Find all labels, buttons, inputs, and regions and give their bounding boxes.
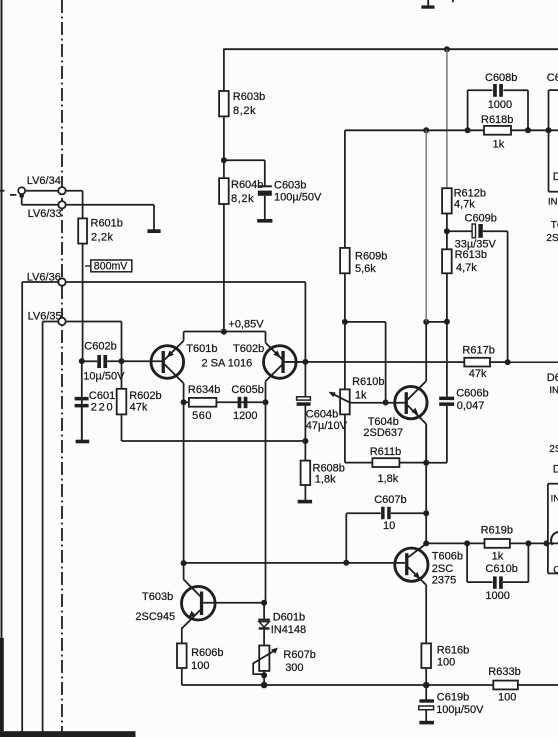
wire T603b collector line to T606b base: [184, 562, 405, 564]
junction C607b drop on base line: [343, 560, 349, 566]
svg-text:100µ/50V: 100µ/50V: [436, 704, 484, 716]
wire C606b bottom to emitter node: [426, 406, 447, 463]
svg-text:R606b: R606b: [191, 647, 223, 659]
svg-text:R603b: R603b: [233, 91, 265, 103]
wire T602b corner vertical down to T603b base: [265, 402, 267, 602]
junction emitter/R611b/C606b node: [423, 460, 429, 466]
wiper of R607b: [253, 648, 278, 675]
connector LV6/36: [27, 271, 66, 285]
svg-text:1k: 1k: [493, 138, 505, 150]
transistor T604b (2SD637 NPN): [363, 322, 427, 463]
svg-text:LV6/36: LV6/36: [27, 271, 61, 283]
svg-text:IN.: IN.: [548, 196, 558, 207]
capacitor C605b: [231, 384, 263, 422]
wire C607b left lead and drop: [346, 513, 380, 563]
wire dash-dot module boundary vertical: [61, 0, 63, 732]
ground below C603b: [257, 219, 272, 223]
wire D601b stem upper: [263, 603, 265, 620]
svg-text:T603b: T603b: [142, 591, 173, 603]
svg-text:R613b: R613b: [455, 249, 487, 261]
capacitor C601b (electrolytic): [75, 390, 122, 440]
resistor R601b: [78, 217, 123, 243]
svg-text:C: C: [553, 565, 558, 576]
wire LV6/36 left branch vertical down to bottom bar: [21, 282, 23, 732]
resistor R612b: [442, 188, 486, 214]
svg-text:R617b: R617b: [462, 345, 494, 357]
junction R616b on rail: [423, 682, 430, 689]
junction C610b right: [525, 540, 531, 546]
svg-text:4,7k: 4,7k: [454, 199, 475, 211]
capacitor C608b: [485, 72, 517, 111]
wire LV6/34 left dashes: [0, 191, 16, 195]
wire R616b to rail: [425, 668, 427, 700]
wire R601b vertical branch: [82, 191, 84, 361]
resistor R611b: [370, 446, 402, 485]
resistor R617b: [462, 345, 494, 381]
resistor R613b: [442, 249, 487, 274]
resistor R618b: [481, 114, 513, 150]
label fragment 2S/D right edge: [549, 444, 558, 476]
wire LV6/36 horizontal: [22, 281, 305, 283]
junction C609b tap: [444, 228, 450, 234]
svg-text:R619b: R619b: [481, 524, 513, 536]
wire C606b branch vertical: [446, 322, 448, 397]
svg-text:10µ/50V: 10µ/50V: [83, 371, 125, 383]
junction T606b collector node: [423, 540, 429, 546]
wire collector jumper y=322: [426, 321, 447, 323]
svg-text:220: 220: [91, 401, 115, 413]
svg-text:C602b: C602b: [84, 341, 116, 353]
capacitor C606b: [439, 387, 488, 411]
svg-text:1k: 1k: [355, 389, 367, 401]
svg-text:R618b: R618b: [481, 114, 513, 126]
svg-text:800mV: 800mV: [94, 261, 128, 273]
wire jumper to T604b base branch: [345, 322, 386, 403]
svg-text:1,8k: 1,8k: [315, 474, 336, 486]
resistor R607b (variable): [259, 646, 316, 675]
wire ground stem after LV6/33: [153, 205, 155, 230]
resistor R610b (variable): [329, 376, 385, 414]
wire T601b corner vertical down to T603b: [183, 402, 185, 563]
resistor R634b: [188, 384, 220, 422]
wire T604b collector branch upper (faint): [425, 130, 427, 322]
wire top edge tick: [452, 0, 454, 2]
svg-text:2 SA 1016: 2 SA 1016: [202, 358, 253, 370]
svg-text:2SC945: 2SC945: [135, 611, 175, 623]
svg-text:2375: 2375: [432, 574, 456, 586]
junction left connector: [19, 193, 24, 198]
svg-text:1k: 1k: [492, 551, 504, 563]
wire C602b left node vertical (from R601b) to C601b/ground: [81, 361, 83, 440]
wire LV6/35 horizontal: [43, 321, 122, 323]
wire bias rail y=441: [122, 440, 306, 442]
resistor R619b: [481, 524, 513, 562]
junction T604b base node: [383, 400, 389, 406]
svg-text:+0,85V: +0,85V: [228, 318, 264, 330]
wire bottom rail: [182, 684, 558, 686]
junction R618b right: [525, 127, 531, 133]
junction R609b bottom node: [342, 319, 348, 325]
junction C607b right: [423, 510, 429, 516]
svg-text:D6: D6: [547, 372, 558, 384]
svg-text:2SC: 2SC: [432, 563, 453, 575]
junction R619b out right edge: [544, 540, 550, 546]
wire left page edge vertical line: [0, 0, 4, 732]
svg-text:R616b: R616b: [437, 644, 469, 656]
wire C602b left lead: [82, 360, 97, 362]
wire R603b branch vertical x=224: [223, 49, 225, 332]
wire C609b right drop to signal node: [507, 231, 509, 362]
svg-text:2S: 2S: [546, 233, 558, 244]
capacitor C610b: [485, 563, 517, 602]
wire C602b right lead to T601b base: [107, 360, 162, 362]
resistor R616b: [421, 643, 469, 668]
wire +0.85V emitter rail: [184, 331, 266, 333]
component box fragment top right: [546, 72, 558, 244]
wire LV6/33 horizontal: [22, 204, 154, 206]
label +0,85V: [228, 318, 264, 330]
svg-text:LV6/34: LV6/34: [27, 175, 61, 187]
junction T603b collector node: [181, 560, 187, 566]
svg-text:47k: 47k: [130, 401, 148, 413]
svg-text:300: 300: [285, 662, 303, 674]
capacitor C603b (electrolytic): [258, 180, 322, 220]
svg-text:C610b: C610b: [485, 563, 517, 575]
wire R609b vertical: [344, 130, 346, 462]
svg-text:10: 10: [383, 520, 395, 532]
svg-text:C607b: C607b: [374, 494, 406, 506]
resistor R606b: [177, 643, 224, 671]
capacitor C607b: [374, 494, 406, 532]
svg-text:C603b: C603b: [274, 180, 306, 192]
wire T603b base lead: [203, 602, 264, 604]
wire R613b lower vertical: [446, 273, 448, 321]
svg-text:R604b: R604b: [231, 179, 263, 191]
svg-text:LV6/35: LV6/35: [28, 310, 62, 322]
junction T602b lower corner: [263, 399, 269, 405]
diode D601b (1N4148): [258, 611, 306, 636]
svg-text:100: 100: [191, 660, 209, 672]
junction feedback line / collector branch: [423, 127, 429, 133]
transistor T602b (2SA1016 PNP): [202, 332, 297, 403]
svg-text:R602b: R602b: [129, 390, 161, 402]
junction C602b left: [79, 358, 85, 364]
svg-text:IN: IN: [549, 385, 558, 396]
transistor T606b (2SC2375 NPN): [395, 544, 463, 644]
junction collector jumper right: [444, 319, 450, 325]
wire R619b row: [426, 542, 558, 544]
junction right-edge box tap: [546, 127, 552, 133]
svg-text:1000: 1000: [485, 590, 509, 602]
svg-text:47k: 47k: [469, 368, 487, 380]
svg-text:2,2k: 2,2k: [91, 232, 113, 244]
resistor R633b: [488, 666, 520, 704]
wire D601b to R607b: [263, 630, 265, 646]
wire R607b to rail: [263, 671, 265, 685]
capacitor C604b (electrolytic): [297, 397, 348, 432]
junction R607b bottom: [261, 672, 267, 678]
junction C610b left: [464, 540, 470, 546]
wire LV6/34 horizontal: [25, 190, 83, 192]
resistor R602b: [117, 389, 162, 415]
capacitor C609b (electrolytic): [447, 213, 508, 251]
connector LV6/33: [28, 201, 66, 220]
wire top supply rail y=49: [224, 48, 558, 50]
junction R617b output node: [505, 359, 511, 365]
svg-text:C619b: C619b: [437, 691, 469, 703]
svg-text:R634b: R634b: [188, 384, 220, 396]
wire R611b row: [345, 462, 426, 464]
svg-text:D: D: [553, 463, 558, 475]
component box fragment lower right: [548, 484, 558, 576]
svg-text:LV6/33: LV6/33: [28, 208, 62, 220]
ground below R608b: [298, 500, 312, 504]
wire C603b branch: [224, 160, 265, 185]
svg-text:C60: C60: [547, 72, 558, 84]
svg-text:R610b: R610b: [352, 376, 384, 388]
junction R607b on rail: [261, 682, 268, 689]
junction top rail / R612b branch: [444, 46, 450, 52]
capacitor C602b: [83, 341, 125, 383]
label 800mV box: [85, 260, 132, 273]
svg-text:IN4148: IN4148: [271, 624, 306, 636]
svg-text:1200: 1200: [233, 410, 257, 422]
resistor R609b: [340, 248, 387, 275]
connector LV6/34: [27, 175, 66, 195]
connector LV6/35: [28, 310, 66, 325]
svg-text:1000: 1000: [488, 99, 512, 111]
svg-text:100µ/50V: 100µ/50V: [274, 191, 322, 203]
svg-text:C604b: C604b: [306, 409, 338, 421]
wire emitter node vertical x=426: [425, 424, 427, 543]
svg-text:D: D: [553, 171, 558, 183]
wire feedback top horizontal y=130: [345, 129, 558, 131]
svg-text:560: 560: [192, 410, 212, 422]
resistor R603b: [219, 91, 265, 117]
resistor R608b: [301, 461, 345, 486]
junction T602b base node: [302, 359, 308, 365]
wire LV6/36 vertical to C604b: [304, 282, 306, 397]
svg-text:8,2k: 8,2k: [231, 193, 254, 205]
junction R603b/R604b/C603b node: [221, 157, 227, 163]
svg-text:T601b: T601b: [186, 343, 217, 355]
svg-text:1,8k: 1,8k: [378, 473, 399, 485]
wire left connector drop: [21, 194, 23, 205]
wire R608b to ground: [304, 485, 306, 500]
wire emitter degeneration row: [184, 401, 266, 403]
wire R610b wiper-out to T604b base: [350, 402, 405, 404]
svg-text:R607b: R607b: [283, 649, 315, 661]
svg-text:8,2k: 8,2k: [233, 105, 256, 117]
svg-text:47µ/10V: 47µ/10V: [306, 420, 348, 432]
svg-text:D601b: D601b: [273, 611, 305, 623]
capacitor C608b bracket: [468, 90, 528, 130]
svg-text:4,7k: 4,7k: [456, 262, 477, 274]
junction C602b right / LV6-35 branch: [119, 358, 125, 364]
svg-text:100: 100: [498, 692, 516, 704]
ground right of LV6/33: [147, 229, 160, 233]
wire long signal line y=362 to right edge: [285, 361, 558, 363]
svg-text:C606b: C606b: [456, 387, 488, 399]
junction T601b lower corner: [181, 399, 187, 405]
svg-text:IN: IN: [551, 493, 558, 504]
svg-text:C605b: C605b: [231, 384, 263, 396]
svg-text:0,047: 0,047: [457, 400, 485, 412]
svg-text:T606b: T606b: [432, 550, 463, 562]
svg-text:2SD637: 2SD637: [363, 427, 403, 439]
svg-text:R608b: R608b: [313, 462, 345, 474]
junction R618b left: [465, 127, 471, 133]
junction bias rail / C604b: [302, 438, 308, 444]
svg-text:R633b: R633b: [488, 666, 520, 678]
bottom black bar: [0, 731, 136, 737]
wire R606b to bottom rail: [181, 668, 183, 685]
svg-text:T6: T6: [551, 220, 558, 231]
svg-text:T602b: T602b: [233, 343, 264, 355]
wire R612b upper vertical (faint): [446, 49, 448, 188]
wire T602b base to LV6/36 node: [285, 361, 306, 363]
ground below C601b: [76, 440, 90, 444]
wire C604b to rail: [304, 406, 306, 461]
svg-text:R601b: R601b: [91, 217, 123, 229]
svg-text:C609b: C609b: [465, 213, 497, 225]
label fragment D6/IN right edge: [547, 372, 558, 396]
svg-text:C608b: C608b: [485, 72, 517, 84]
svg-text:100: 100: [437, 657, 455, 669]
capacitor C619b (electrolytic): [419, 691, 484, 724]
junction emitter rail / R604b feed: [221, 329, 227, 335]
connector circle on LV6/34 wire: [18, 187, 25, 194]
transistor T601b (2SA1016 PNP): [151, 332, 218, 403]
ground top (stub from top edge): [421, 0, 434, 9]
capacitor C610b bracket: [467, 543, 528, 582]
resistor R604b: [219, 178, 263, 205]
svg-text:2S: 2S: [549, 444, 558, 455]
wire R612b to R613b: [446, 213, 448, 249]
wire LV6/35 left branch vertical down to bottom bar: [42, 322, 44, 732]
wire C607b right lead: [391, 512, 426, 514]
svg-text:R611b: R611b: [370, 446, 402, 458]
transistor T603b (2SC945 NPN): [135, 563, 215, 644]
junction collector jumper left: [423, 319, 429, 325]
svg-text:R609b: R609b: [355, 250, 387, 262]
junction T603b base / D601b node: [261, 600, 267, 606]
wire R602b vertical x=121.5: [121, 322, 123, 442]
svg-text:5,6k: 5,6k: [355, 263, 376, 275]
